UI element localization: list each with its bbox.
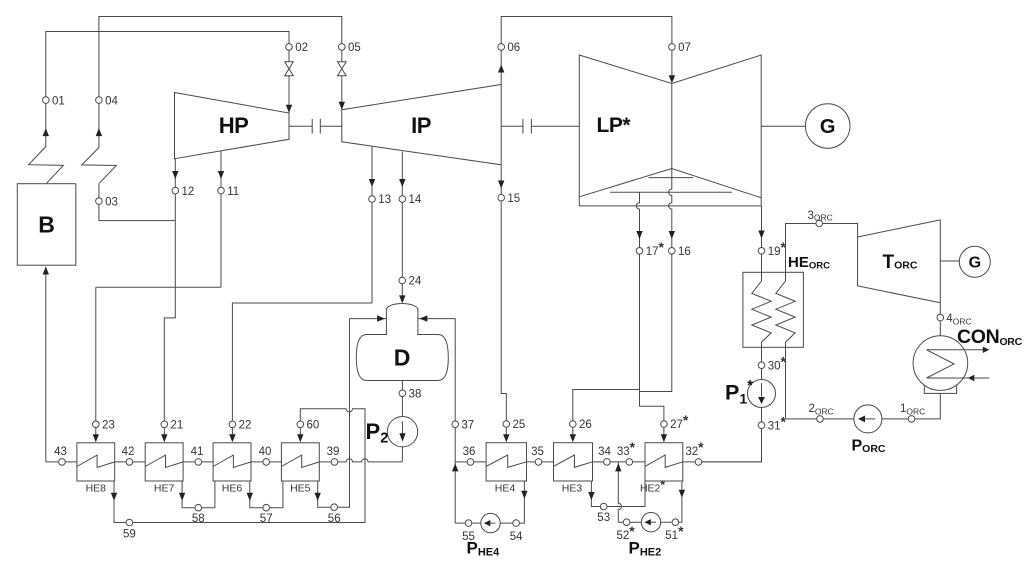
svg-text:HE8: HE8 bbox=[86, 483, 107, 495]
wire feedwater 40 segment bbox=[251, 461, 281, 463]
flow arrow into HE6 bbox=[229, 434, 235, 442]
flow arrow into HE4 bbox=[503, 434, 509, 442]
svg-text:32*: 32* bbox=[685, 439, 704, 458]
heat exchanger HE5 bbox=[281, 443, 319, 481]
cooling water in arrow bbox=[927, 377, 990, 379]
node 58 bbox=[195, 504, 202, 511]
pump P HE2 bbox=[641, 513, 660, 532]
condenser CON ORC bbox=[913, 336, 968, 391]
wire feedwater 42 segment bbox=[115, 461, 146, 463]
node 14 bbox=[399, 196, 406, 203]
svg-text:3ORC: 3ORC bbox=[808, 210, 833, 223]
wire drain HE6 cascade to HE5 bbox=[250, 481, 283, 508]
wire shaft LP to generator bbox=[761, 125, 805, 127]
node 53 bbox=[600, 503, 607, 510]
node 57 bbox=[263, 504, 270, 511]
wire drain HE2 to pump bbox=[618, 481, 682, 522]
flow arrow into HP inlet bbox=[286, 105, 292, 113]
svg-text:2ORC: 2ORC bbox=[809, 403, 834, 417]
svg-text:43: 43 bbox=[54, 446, 67, 458]
flow arrow down HE3 drain bbox=[588, 492, 594, 500]
svg-text:HEORC: HEORC bbox=[788, 254, 830, 272]
pump P2 bbox=[387, 417, 417, 447]
pump P HE4 bbox=[481, 513, 500, 532]
svg-text:57: 57 bbox=[260, 513, 273, 525]
svg-text:53: 53 bbox=[597, 512, 610, 524]
wire shaft T ORC to generator bbox=[940, 260, 959, 262]
flow arrow into HE5 top bbox=[297, 434, 303, 442]
node 03 bbox=[96, 198, 103, 205]
wire pump P1 to condensate line bbox=[699, 408, 762, 462]
node 05 bbox=[339, 44, 346, 51]
svg-text:36: 36 bbox=[463, 446, 476, 458]
svg-text:30*: 30* bbox=[768, 353, 787, 372]
node 04 bbox=[96, 97, 103, 104]
wire condensate HE4 to HE3 bbox=[527, 461, 554, 463]
node 21 bbox=[161, 421, 168, 428]
svg-text:27*: 27* bbox=[670, 412, 689, 431]
wire drain HE3 cascade to HE2 bbox=[591, 481, 645, 507]
shaft coupling HP-IP bbox=[289, 119, 342, 134]
svg-text:25: 25 bbox=[513, 419, 526, 431]
node 23 bbox=[93, 421, 100, 428]
svg-text:04: 04 bbox=[105, 95, 118, 107]
flow arrow up crossover bbox=[498, 65, 504, 73]
flow arrow down to HE ORC bbox=[758, 231, 764, 239]
wire LP exhaust 16 with crossing hops bbox=[640, 169, 672, 392]
node 43 bbox=[59, 459, 66, 466]
wire feedwater 39 segment with hops bbox=[319, 459, 402, 462]
wire extraction 14 to deaerator bbox=[401, 152, 403, 298]
flow arrow up into condensate line bbox=[452, 463, 458, 471]
svg-text:17*: 17* bbox=[646, 239, 665, 258]
flow arrow down HE8 drain bbox=[111, 493, 117, 501]
turbine LP double-flow bbox=[579, 55, 761, 206]
boiler B bbox=[17, 184, 76, 266]
flow arrow down HE4 drain bbox=[521, 491, 527, 499]
heat exchanger HE2* bbox=[645, 443, 683, 481]
flow arrow into HE8 bbox=[93, 434, 99, 442]
wire feedwater 41 segment bbox=[183, 461, 213, 463]
heat exchanger HE3 bbox=[554, 443, 593, 481]
flow arrow down extraction 11 bbox=[218, 171, 224, 179]
svg-text:01: 01 bbox=[52, 95, 65, 107]
node 30* bbox=[758, 362, 765, 369]
wire pump P2 discharge bbox=[401, 445, 403, 462]
wire main steam B to HP with superheater zigzag bbox=[29, 32, 289, 184]
svg-text:05: 05 bbox=[348, 42, 361, 54]
wire drain HE8 to HE5 steam side with hops bbox=[114, 409, 365, 523]
flow arrow into HE2 bbox=[661, 434, 667, 442]
svg-text:G: G bbox=[969, 255, 981, 272]
node 15 bbox=[498, 194, 505, 201]
shaft coupling IP-LP bbox=[501, 119, 579, 134]
svg-text:14: 14 bbox=[409, 194, 422, 206]
wire LP exhaust to HE ORC bbox=[761, 206, 763, 272]
flow arrow down HE5 drain bbox=[315, 493, 321, 501]
flow arrow into IP inlet bbox=[339, 102, 345, 110]
wire extraction 11 bbox=[220, 151, 222, 287]
svg-text:07: 07 bbox=[678, 42, 691, 54]
node 01 bbox=[43, 97, 50, 104]
turbine T ORC bbox=[858, 220, 941, 303]
flow arrow down wire 16 bbox=[669, 231, 675, 239]
pump P1* bbox=[748, 380, 776, 408]
wire deaerator to pump P2 bbox=[401, 381, 403, 418]
deaerator D bbox=[356, 335, 448, 381]
wire LP exhaust 17 to HE3 bbox=[573, 192, 640, 439]
wire crossover 06 to 07 bbox=[501, 17, 672, 85]
flow arrow down extraction 14 bbox=[399, 179, 405, 187]
svg-text:HE3: HE3 bbox=[562, 483, 583, 495]
wire drain HE4 to pump bbox=[455, 481, 524, 523]
svg-text:42: 42 bbox=[122, 446, 135, 458]
wire branch to HE2 bbox=[640, 390, 664, 440]
node 07 bbox=[669, 44, 676, 51]
node 35 bbox=[535, 459, 542, 466]
wire junction header bbox=[96, 286, 221, 288]
node 51* bbox=[672, 519, 679, 526]
node 41 bbox=[195, 459, 202, 466]
wire HE ORC drain to pump P1 bbox=[761, 347, 763, 379]
svg-text:IP: IP bbox=[411, 113, 431, 138]
svg-text:4ORC: 4ORC bbox=[946, 313, 971, 327]
node 12 bbox=[172, 187, 179, 194]
flow arrow into deaerator left bbox=[377, 315, 385, 321]
generator G ORC bbox=[959, 246, 990, 277]
svg-text:60: 60 bbox=[307, 420, 320, 432]
svg-text:P1*: P1* bbox=[725, 378, 753, 407]
turbine IP bbox=[342, 85, 501, 165]
svg-text:HE2*: HE2* bbox=[640, 478, 665, 495]
node 4 ORC bbox=[937, 314, 944, 321]
node 11 bbox=[218, 187, 225, 194]
node 37 bbox=[452, 421, 459, 428]
flow arrow down HE2 drain bbox=[679, 490, 685, 498]
node 34 bbox=[604, 459, 611, 466]
wire HP exhaust node 12 down bbox=[174, 159, 176, 288]
node 38 bbox=[399, 390, 406, 397]
node 32* bbox=[695, 459, 702, 466]
node 40 bbox=[263, 459, 270, 466]
node 02 bbox=[286, 44, 293, 51]
pump P ORC bbox=[854, 405, 882, 433]
svg-text:16: 16 bbox=[678, 246, 691, 258]
condenser hotwell bbox=[924, 386, 956, 394]
flow arrow up main steam bbox=[43, 128, 49, 136]
flow arrow down HE6 drain bbox=[247, 493, 253, 501]
node 1 ORC bbox=[908, 416, 915, 423]
node 52* bbox=[623, 519, 630, 526]
node 55 bbox=[465, 520, 472, 527]
flow arrow down HE7 drain bbox=[179, 493, 185, 501]
wire drain HE7 cascade to HE6 bbox=[182, 481, 215, 508]
node 24 bbox=[399, 277, 406, 284]
svg-text:40: 40 bbox=[259, 446, 272, 458]
wire condenser to pump P ORC bbox=[786, 393, 941, 419]
svg-text:HP: HP bbox=[219, 113, 249, 138]
turbine HP bbox=[175, 93, 290, 159]
svg-text:CONORC: CONORC bbox=[957, 326, 1023, 348]
flow arrow into deaerator bbox=[399, 295, 405, 303]
cooling water out arrow bbox=[927, 349, 984, 351]
node 33* bbox=[626, 459, 633, 466]
svg-text:56: 56 bbox=[328, 513, 341, 525]
node 31* bbox=[758, 422, 765, 429]
heat exchanger HE8 bbox=[77, 443, 115, 481]
flow arrow into HE3 bbox=[570, 434, 576, 442]
svg-text:38: 38 bbox=[409, 389, 422, 401]
flow arrow up pumped drain bbox=[615, 463, 621, 471]
svg-text:11: 11 bbox=[227, 186, 239, 198]
svg-text:34: 34 bbox=[598, 446, 611, 458]
wire ORC feed riser bbox=[785, 347, 787, 419]
flow arrow down extraction 13 bbox=[369, 179, 375, 187]
node 3 ORC bbox=[816, 220, 823, 227]
wire steam to HE7 bbox=[164, 287, 175, 439]
svg-text:59: 59 bbox=[123, 529, 136, 541]
node 42 bbox=[126, 459, 133, 466]
wire cold reheat to boiler node 03 bbox=[99, 183, 175, 220]
svg-text:HE7: HE7 bbox=[154, 483, 175, 495]
svg-text:B: B bbox=[38, 212, 55, 238]
wire riser 37 to deaerator bbox=[418, 319, 455, 523]
wire extraction 13 bbox=[371, 147, 373, 303]
wire condensate to deaerator riser bbox=[455, 461, 486, 463]
heat exchanger HE7 bbox=[145, 443, 183, 481]
node 22 bbox=[229, 421, 236, 428]
svg-text:03: 03 bbox=[105, 196, 118, 208]
svg-text:21: 21 bbox=[171, 420, 184, 432]
flow arrow up hot reheat bbox=[96, 128, 102, 136]
node 27* bbox=[661, 421, 668, 428]
heat exchanger HE4 bbox=[486, 443, 526, 481]
generator G bbox=[805, 104, 850, 149]
node 60 bbox=[297, 421, 304, 428]
svg-text:55: 55 bbox=[462, 531, 475, 543]
svg-text:13: 13 bbox=[378, 194, 391, 206]
svg-text:HE4: HE4 bbox=[495, 483, 516, 495]
flow arrow down wire 17 bbox=[636, 231, 642, 239]
node 19* bbox=[758, 248, 765, 255]
flow arrow down IP exhaust bbox=[498, 181, 504, 189]
node 59 bbox=[126, 519, 133, 526]
svg-text:D: D bbox=[394, 345, 411, 371]
svg-text:12: 12 bbox=[182, 186, 195, 198]
flow arrow into deaerator right bbox=[419, 315, 427, 321]
svg-text:39: 39 bbox=[327, 446, 340, 458]
node 39 bbox=[331, 459, 338, 466]
svg-text:37: 37 bbox=[461, 420, 474, 432]
svg-text:23: 23 bbox=[102, 420, 115, 432]
svg-text:22: 22 bbox=[239, 420, 252, 432]
node 2 ORC bbox=[817, 416, 824, 423]
node 26 bbox=[570, 421, 577, 428]
node 36 bbox=[467, 459, 474, 466]
flow arrow into HE7 bbox=[161, 434, 167, 442]
heat exchanger HE ORC bbox=[743, 272, 804, 347]
node 13 bbox=[369, 196, 376, 203]
wire deaerator inflow left bbox=[350, 318, 387, 320]
svg-text:PORC: PORC bbox=[852, 438, 886, 456]
svg-text:15: 15 bbox=[507, 193, 520, 205]
svg-text:G: G bbox=[820, 116, 836, 138]
wire feedwater 43 segment bbox=[46, 461, 77, 463]
flow arrow down HP exhaust bbox=[172, 171, 178, 179]
heat exchanger HE6 bbox=[213, 443, 251, 481]
wire HE ORC to turbine T ORC node 3 bbox=[786, 224, 858, 273]
svg-text:06: 06 bbox=[507, 42, 520, 54]
svg-text:1ORC: 1ORC bbox=[900, 403, 925, 417]
node 06 bbox=[498, 44, 505, 51]
wire steam to HE8 bbox=[95, 287, 97, 439]
svg-text:TORC: TORC bbox=[883, 252, 918, 273]
valve V2 on line 05 bbox=[338, 62, 347, 76]
wire condensate HE2 to 31 junction bbox=[683, 461, 762, 463]
flow arrow up into boiler bbox=[43, 267, 49, 275]
svg-text:54: 54 bbox=[510, 531, 523, 543]
svg-text:41: 41 bbox=[191, 446, 204, 458]
svg-text:26: 26 bbox=[579, 419, 592, 431]
node 17* bbox=[636, 248, 643, 255]
flow arrow into LP inlet bbox=[669, 75, 675, 83]
valve V1 on line 02 bbox=[285, 62, 294, 76]
node 56 bbox=[331, 504, 338, 511]
node 25 bbox=[503, 421, 510, 428]
svg-text:31*: 31* bbox=[768, 413, 787, 432]
svg-text:02: 02 bbox=[295, 42, 308, 54]
wire condensate HE3 to HE2 bbox=[593, 461, 646, 463]
wire IP exhaust 15 to HE4 bbox=[501, 165, 506, 439]
wire T ORC exhaust to condenser bbox=[939, 303, 941, 336]
svg-text:HE5: HE5 bbox=[290, 483, 311, 495]
wire drain HE5 to deaerator bbox=[318, 319, 350, 508]
svg-text:58: 58 bbox=[192, 513, 205, 525]
wire extraction 13 to HE6 bbox=[232, 303, 372, 439]
svg-text:35: 35 bbox=[531, 446, 544, 458]
svg-text:P2: P2 bbox=[366, 419, 389, 447]
svg-text:LP*: LP* bbox=[597, 114, 632, 137]
wire feedwater to boiler riser bbox=[45, 267, 47, 462]
svg-text:19*: 19* bbox=[768, 239, 787, 258]
node 16 bbox=[669, 248, 676, 255]
svg-text:PHE2: PHE2 bbox=[629, 539, 662, 559]
node 54 bbox=[513, 520, 520, 527]
wire riser 52 to condensate line bbox=[618, 462, 621, 522]
wire hot reheat with reheater zigzag 04 to valve 05 bbox=[82, 17, 342, 184]
svg-text:HE6: HE6 bbox=[222, 483, 243, 495]
svg-text:33*: 33* bbox=[617, 439, 636, 458]
svg-text:24: 24 bbox=[409, 276, 422, 288]
